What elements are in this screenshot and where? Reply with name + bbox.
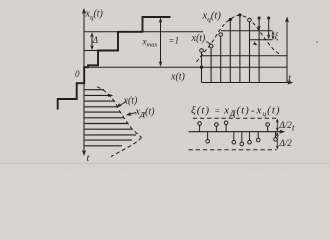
svg-text:x(t): x(t) [123,96,139,107]
svg-text:ξ: ξ [275,31,279,41]
svg-text:Δ: Δ [92,35,98,45]
svg-text:t: t [288,73,291,84]
svg-text:Δ/2: Δ/2 [279,138,293,148]
svg-text:ξ(t) = xД(t)-xц(t): ξ(t) = xД(t)-xц(t) [191,105,281,119]
svg-text:Δ/2: Δ/2 [279,120,293,130]
svg-text:xД(t): xД(t) [135,107,156,120]
svg-text:=1: =1 [169,36,180,46]
svg-text:x(t): x(t) [170,72,186,83]
svg-text:0: 0 [75,69,80,79]
svg-text:x(t): x(t) [191,33,207,44]
